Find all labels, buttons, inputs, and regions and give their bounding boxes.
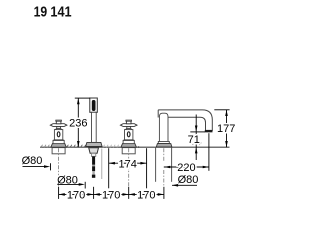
svg-text:174: 174	[118, 158, 136, 170]
svg-text:170: 170	[67, 189, 85, 201]
svg-text:71: 71	[188, 134, 200, 146]
svg-text:170: 170	[102, 189, 120, 201]
svg-text:Ø80: Ø80	[178, 174, 199, 186]
svg-text:170: 170	[137, 189, 155, 201]
svg-text:19: 19	[34, 4, 48, 20]
svg-text:141: 141	[50, 4, 71, 20]
svg-text:Ø80: Ø80	[22, 155, 43, 167]
svg-text:236: 236	[69, 118, 87, 130]
svg-text:220: 220	[177, 162, 195, 174]
svg-text:177: 177	[217, 123, 235, 135]
